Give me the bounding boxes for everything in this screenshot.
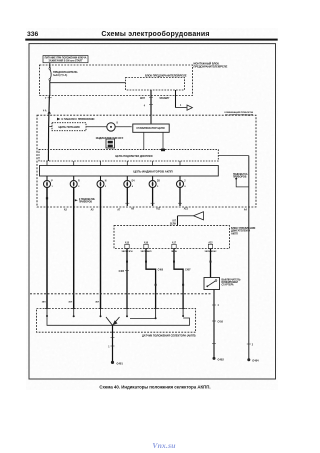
wire: lamp R down to range switch (73, 187, 75, 308)
wire: gauge box to dimming sub-box (143, 132, 145, 149)
transmission range switch dashed box (37, 309, 196, 333)
flag connector at ECM wire (177, 216, 179, 226)
wire: ECM A17 jog to range switch (174, 249, 183, 309)
fuse F13 7.5A (49, 68, 51, 70)
wire: lamp N down to range switch (100, 187, 102, 308)
THD OFF indicator pictogram (106, 139, 115, 148)
connector ticks at range switch (45, 308, 49, 310)
lamp 2 (177, 181, 184, 188)
wire: fuse to relay box B (49, 81, 51, 83)
ECM pin A17 (172, 244, 176, 248)
ECM pin A15 (125, 244, 129, 248)
indicator lamp D (brightness) (107, 123, 115, 131)
bulkhead dashed line (30, 293, 212, 295)
switch lever (106, 317, 113, 325)
ECM pin A16 (144, 244, 148, 248)
wire: ECM A16 jog to range switch (146, 249, 156, 309)
ground G401 (111, 361, 114, 364)
arrow: to instrument panel lights (57, 118, 60, 121)
wire: battery feed into fuse (49, 65, 51, 68)
arrow: to panel illumination (75, 199, 78, 201)
switch contacts (46, 309, 48, 316)
ground G402 (213, 357, 216, 360)
stubs: sub-box to indicator bar (46, 161, 48, 166)
wire: power circuit to lamp D (86, 126, 107, 128)
wire: relay box output to cluster (150, 90, 152, 115)
lamp D4 (124, 181, 131, 188)
watermark vnx.su (4, 441, 320, 450)
wire: ECM A15 down to range switch (126, 249, 128, 309)
ECM pin A18 (208, 244, 212, 248)
lamp stubs from bar (46, 176, 48, 181)
outer frame (29, 44, 276, 379)
wire: bar right to illumination ground (218, 155, 249, 157)
wire: lamp 2 to cluster connector (179, 187, 181, 206)
header rule (25, 39, 277, 41)
starter interlock switch box (204, 278, 220, 290)
lamp D3 (149, 181, 156, 188)
wire: main feed down left side (49, 83, 51, 96)
lamp R (70, 181, 77, 188)
wire: lamp D3 to cluster connector (152, 187, 154, 206)
ground G404 (right) (247, 358, 250, 361)
note box (ignition ON/START) (43, 56, 88, 63)
AT indicator circuit bar (40, 166, 219, 177)
wire: relay box output to connector (175, 90, 177, 108)
wire: lamp P down to range switch (46, 187, 48, 308)
ECM/PCM dashed box (114, 226, 230, 249)
wire: note box stub (49, 63, 51, 65)
gauge circuit box (133, 124, 169, 132)
wire: interlock switch to ground G402 (213, 290, 215, 358)
lamp N (97, 181, 104, 188)
power circuit dashed box (52, 123, 86, 131)
lamp P (44, 181, 51, 188)
wire: ECM A18 to starter interlock switch (210, 249, 212, 278)
wire: lamp to gauge circuit box (115, 126, 131, 128)
relay box B: ignition fuse/relay block (126, 78, 185, 91)
connector mark on main feed (48, 111, 51, 114)
instrument cluster dashed box (37, 115, 256, 207)
connector plug (triangle) (187, 105, 192, 110)
dimming circuit dashed sub-box (39, 150, 218, 161)
wire: feed tap into power circuit box (49, 126, 52, 128)
wire: relay feed into gauge box (150, 115, 152, 123)
illumination tap wire (235, 178, 237, 180)
dashed block A: fuse/relay box under dash (40, 65, 193, 96)
wire: lamp D4 to cluster connector (126, 187, 128, 206)
common rail of range switch (47, 316, 190, 326)
wire: range switch common to ground G401 (112, 325, 114, 362)
